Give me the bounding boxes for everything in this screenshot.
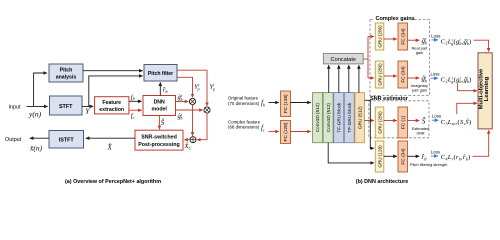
- svg-text:FC (34): FC (34): [401, 148, 407, 165]
- block GRU 256 row3: [375, 107, 384, 138]
- wire Conv1D2 down to GRU128: [328, 143, 374, 163]
- svg-text:FC (128): FC (128): [283, 122, 289, 141]
- svg-text:Loss: Loss: [431, 149, 440, 154]
- svg-text:gain: gain: [416, 50, 423, 55]
- svg-text:x̂(n): x̂(n): [29, 144, 43, 153]
- wire FC1 to S hat: [408, 120, 420, 122]
- wire Y branch up to Pitch filter: [89, 76, 143, 107]
- svg-text:Loss: Loss: [431, 72, 440, 77]
- svg-text:GRU (128): GRU (128): [377, 145, 382, 168]
- wire f_c to DNN model: [129, 109, 142, 111]
- svg-text:Input: Input: [9, 104, 21, 110]
- block Feature extraction: [95, 97, 129, 114]
- wire FC128 top to Conv1D 1: [291, 102, 311, 104]
- svg-text:model: model: [152, 107, 168, 113]
- svg-text:GRU (256): GRU (256): [377, 63, 382, 86]
- svg-text:TF-GRU block: TF-GRU block: [336, 102, 341, 133]
- wire connector row3 to MOL box left: [457, 103, 477, 114]
- svg-text:fc: fc: [261, 124, 265, 133]
- wire feed arrow into GRU256 row1: [368, 36, 374, 38]
- node multiplier 1: [189, 98, 195, 104]
- wire g_b^r to multiplier 1: [176, 101, 189, 103]
- wire GRU512 to GRU128: [364, 100, 374, 148]
- svg-text:ĝrb: ĝrb: [178, 93, 183, 102]
- wire GRU512 to GRU256 row3: [364, 120, 374, 122]
- svg-text:r̂b: r̂b: [163, 87, 169, 95]
- svg-text:Loss: Loss: [431, 33, 440, 38]
- block SNR-switched Post-processing: [135, 130, 183, 150]
- svg-text:C3Lsnr(S,Ŝ): C3Lsnr(S,Ŝ): [441, 118, 472, 126]
- svg-text:Pitch: Pitch: [60, 68, 73, 74]
- wire f_b to DNN model: [129, 100, 142, 102]
- svg-text:GRU (256): GRU (256): [377, 111, 382, 134]
- svg-text:Conv1D (512): Conv1D (512): [326, 103, 331, 133]
- wire input branch up to Pitch analysis: [34, 73, 47, 106]
- wire Loss arrow row2: [431, 77, 438, 79]
- svg-text:r̂b: r̂b: [422, 153, 428, 162]
- wire Conv1D2 up to Concatenate: [328, 65, 330, 92]
- svg-text:fb: fb: [131, 94, 135, 101]
- wire TF-GRU1 up to Concatenate: [338, 65, 340, 92]
- svg-text:analysis: analysis: [56, 75, 77, 81]
- svg-text:Yrp: Yrp: [194, 83, 200, 92]
- wire f_b to FC128 top: [269, 102, 279, 104]
- wire Loss arrow row3: [432, 119, 438, 121]
- wire X hat to ISTFT: [86, 137, 135, 139]
- block ISTFT: [49, 131, 84, 149]
- block GRU 512: [355, 93, 365, 143]
- block Pitch analysis: [49, 64, 83, 82]
- wire FC34 row1 to g_b^r: [408, 39, 420, 41]
- svg-text:Learning: Learning: [484, 76, 490, 101]
- block GRU 256 row2: [375, 61, 384, 88]
- block Complex gains dashed group: [370, 20, 430, 96]
- wire Pitch filter to multiplier 2: [177, 70, 207, 106]
- svg-text:fb: fb: [261, 99, 265, 108]
- wire input y(n) to STFT: [27, 105, 48, 107]
- block Conv1D 512 second: [323, 93, 333, 143]
- svg-text:DNN: DNN: [154, 100, 165, 106]
- wire feed arrow into GRU256 row2: [368, 77, 374, 79]
- wire GRU256 to FC34 row1: [384, 38, 397, 40]
- wire TF-GRU2 up to Concatenate: [348, 65, 350, 92]
- wire Loss arrow row4: [431, 155, 438, 157]
- wire S hat DNN to post-processing: [158, 116, 160, 130]
- wire FC128 bottom to Conv1D 1: [291, 131, 311, 133]
- wire Concatenate feed to gain GRUs: [363, 37, 368, 79]
- block Concatenate: [323, 53, 363, 64]
- wire FC34 row2 to g_b^i: [408, 77, 420, 79]
- wire connector row2 to MOL box left: [458, 83, 477, 91]
- svg-text:part gain: part gain: [412, 87, 427, 92]
- block Multi-objective Learning: [478, 53, 492, 129]
- wire GRU512 up to Concatenate: [358, 65, 360, 92]
- block TF-GRU block first: [334, 93, 344, 143]
- svg-text:(b) DNN architecture: (b) DNN architecture: [356, 179, 408, 185]
- svg-text:Loss: Loss: [432, 114, 441, 119]
- block FC 34 row1: [398, 23, 408, 50]
- svg-text:ISTFT: ISTFT: [59, 137, 75, 143]
- svg-text:GRU (256): GRU (256): [377, 25, 382, 48]
- svg-text:Y: Y: [85, 107, 90, 116]
- svg-text:SNR-switched: SNR-switched: [141, 134, 177, 140]
- svg-text:STFT: STFT: [59, 104, 73, 110]
- svg-text:ĝib: ĝib: [178, 112, 183, 121]
- wire ISTFT to Output: [30, 137, 49, 139]
- svg-text:y(n): y(n): [28, 110, 42, 119]
- svg-text:SNR: SNR: [416, 131, 424, 136]
- svg-text:Concatate: Concatate: [331, 57, 357, 63]
- svg-text:GRU (512): GRU (512): [357, 106, 362, 129]
- svg-text:fc: fc: [131, 113, 135, 120]
- block GRU 256 row1: [375, 23, 384, 50]
- svg-text:Complex gains: Complex gains: [376, 16, 415, 22]
- svg-text:Pitch filtering strength: Pitch filtering strength: [410, 162, 447, 167]
- wire g_b^i to multiplier 2: [176, 109, 203, 111]
- svg-text:TF-GRU block: TF-GRU block: [347, 102, 352, 133]
- svg-text:SNR estimator: SNR estimator: [370, 96, 409, 102]
- wire adder to post-processing: [184, 139, 190, 141]
- svg-text:FC (128): FC (128): [283, 94, 289, 113]
- wire STFT Y to Feature extraction: [82, 105, 93, 107]
- wire Pitch filter to multiplier 1: [177, 77, 193, 97]
- block FC 128 bottom: [281, 121, 291, 144]
- svg-text:Ŝ: Ŝ: [161, 119, 165, 127]
- svg-text:FC (1): FC (1): [401, 115, 407, 129]
- svg-text:(a) Overview of PercepNet+ alg: (a) Overview of PercepNet+ algorithm: [65, 179, 161, 185]
- wire FC34 row4 to r_b hat: [408, 155, 420, 157]
- node multiplier 2: [204, 107, 210, 113]
- block SNR estimator dashed group: [369, 101, 429, 138]
- svg-text:extraction: extraction: [99, 107, 124, 113]
- block Pitch filter: [144, 65, 177, 82]
- wire connector row1 to MOL box top: [474, 40, 489, 51]
- wire r_b DNN to Pitch filter: [159, 82, 161, 95]
- wire Pitch analysis to Pitch filter: [83, 70, 143, 72]
- svg-text:FC (34): FC (34): [401, 28, 407, 45]
- svg-text:Yip: Yip: [210, 83, 216, 92]
- node adder: [190, 137, 196, 143]
- block DNN model: [143, 96, 176, 116]
- svg-text:FC (34): FC (34): [401, 66, 407, 83]
- svg-text:Conv1D (512): Conv1D (512): [315, 103, 320, 133]
- svg-text:(70 dimensions): (70 dimensions): [228, 101, 260, 106]
- svg-text:X̂C: X̂C: [184, 143, 192, 151]
- block FC 128 top: [281, 91, 291, 117]
- svg-text:(68 dimensions): (68 dimensions): [228, 125, 260, 130]
- block Conv1D 512 first: [313, 93, 323, 143]
- svg-text:C4Lr(rb,r̂b): C4Lr(rb,r̂b): [441, 154, 471, 161]
- wire f_c to FC128 bottom: [269, 131, 279, 133]
- svg-text:Post-processing: Post-processing: [138, 142, 180, 148]
- wire GRU256 to FC34 row2: [384, 75, 397, 77]
- svg-text:C2Lrg(grb,ĝrb): C2Lrg(grb,ĝrb): [441, 37, 472, 45]
- block GRU 128: [375, 141, 384, 172]
- wire multiplier 1 to adder: [192, 105, 194, 136]
- block STFT: [50, 96, 83, 115]
- block TF-GRU block second: [344, 93, 354, 143]
- block FC 1 row3: [398, 107, 408, 138]
- block FC 34 row4: [398, 141, 408, 172]
- wire GRU128 to FC34 row4: [384, 155, 397, 157]
- wire connector row4 to MOL box bottom: [473, 130, 489, 156]
- block FC 34 row2: [398, 61, 408, 88]
- svg-text:Feature: Feature: [102, 100, 121, 106]
- svg-text:Ŝ: Ŝ: [422, 115, 426, 125]
- svg-text:X̂: X̂: [107, 144, 113, 152]
- wire multiplier 2 to adder: [197, 113, 207, 140]
- wire GRU256 to FC1 row3: [384, 120, 397, 122]
- svg-text:Pitch filter: Pitch filter: [148, 71, 173, 77]
- wire Loss arrow row1: [431, 39, 438, 41]
- svg-text:C2Lig(gib,ĝib): C2Lig(gib,ĝib): [441, 75, 472, 83]
- svg-text:Output: Output: [5, 137, 22, 143]
